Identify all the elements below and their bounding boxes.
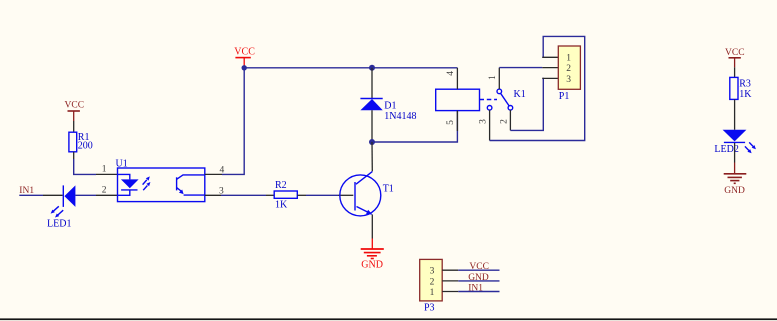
svg-text:3: 3	[566, 75, 571, 85]
svg-text:VCC: VCC	[469, 262, 489, 272]
wire: IN1 to LED1	[19, 194, 43, 196]
svg-text:LED1: LED1	[47, 219, 71, 230]
svg-text:U1: U1	[116, 159, 128, 170]
LED LED2	[723, 130, 756, 153]
svg-text:1: 1	[102, 164, 107, 174]
wire: P3 pin3 (VCC)	[458, 269, 499, 271]
pin: LED2 to GND	[734, 143, 736, 163]
wire: P3 pin1 (IN1)	[458, 291, 499, 293]
pin: D1 top	[371, 68, 373, 99]
svg-text:D1: D1	[384, 100, 396, 111]
wire: R2 to T1 base	[306, 194, 338, 196]
wire: U1 pin3 to R2	[221, 194, 266, 196]
pin: R2 left	[266, 194, 274, 196]
resistor R2	[274, 191, 297, 198]
wire: R3 to LED2	[734, 99, 736, 129]
svg-text:3: 3	[478, 119, 488, 124]
power port VCC (right, dark red)	[725, 48, 745, 68]
wire: K1 pin1 to P1 pin2	[499, 67, 542, 69]
wire: R1 to U1 pin1	[74, 159, 96, 174]
pin 3 of K1	[489, 110, 491, 140]
svg-text:1: 1	[430, 288, 435, 298]
ground GND (right, dark red)	[724, 163, 747, 196]
wire: U1 pin4 up to VCC rail	[222, 68, 244, 175]
svg-text:3: 3	[430, 267, 435, 277]
pin stubs of P1	[542, 56, 558, 58]
svg-text:200: 200	[78, 141, 93, 152]
svg-text:2: 2	[566, 64, 571, 74]
power port VCC (left, dark red)	[65, 101, 85, 121]
pin: VCC to R3	[734, 67, 736, 77]
svg-text:4: 4	[446, 71, 456, 76]
pin 3 of U1	[205, 194, 221, 196]
pin 2 of U1	[96, 194, 118, 196]
wire: LED1 to U1 pin2	[75, 194, 96, 196]
svg-text:1N4148: 1N4148	[384, 111, 416, 122]
pin: D1 bottom	[371, 110, 373, 142]
svg-text:GND: GND	[724, 186, 745, 196]
wire: VCC rail	[244, 67, 457, 69]
sheet border line (bottom)	[0, 318, 777, 320]
wire: junction down to T1 collector	[371, 142, 373, 171]
wire: K1 pin3 loop to P1 pin1	[490, 36, 585, 140]
pin 4 of U1	[205, 173, 222, 175]
wire: junction to relay pin5	[372, 111, 457, 142]
pin: LED1 cathode	[43, 194, 63, 196]
optocoupler U1 body	[118, 168, 205, 202]
svg-text:P3: P3	[424, 302, 435, 313]
wire: P3 pin2 (GND)	[458, 280, 499, 282]
pin 5 of K1	[456, 111, 458, 131]
ground GND (red) under T1	[361, 239, 384, 271]
svg-text:IN1: IN1	[468, 283, 483, 293]
pin 4 of K1	[456, 68, 458, 89]
svg-text:VCC: VCC	[65, 101, 85, 111]
LED D LED1	[51, 185, 76, 217]
svg-text:K1: K1	[514, 89, 526, 100]
junction at D1 top	[369, 65, 375, 71]
svg-text:GND: GND	[361, 259, 383, 270]
svg-text:1K: 1K	[275, 200, 288, 211]
svg-text:2: 2	[102, 185, 107, 195]
connector P1 body	[558, 46, 580, 89]
svg-text:2: 2	[499, 119, 509, 124]
diode D1	[360, 99, 382, 111]
svg-text:VCC: VCC	[234, 46, 255, 57]
junction at D1 bottom	[369, 139, 375, 145]
resistor R3	[730, 77, 738, 99]
svg-text:1: 1	[566, 54, 571, 64]
svg-text:R3: R3	[739, 78, 751, 89]
pin 1 of K1	[498, 68, 500, 90]
svg-text:IN1: IN1	[19, 186, 34, 196]
resistor R1	[69, 132, 77, 152]
pin: VCC to R1	[73, 121, 75, 132]
wire: K1 pin2 to P1 pin3	[510, 78, 543, 130]
relay K1 coil	[436, 89, 480, 110]
pin 1 of U1	[96, 173, 118, 175]
pin: T1 emitter down	[371, 215, 373, 239]
svg-text:1: 1	[488, 75, 498, 80]
pin: R2 right	[297, 194, 306, 196]
svg-text:R2: R2	[275, 180, 287, 191]
dashed actuator line	[480, 99, 498, 101]
svg-text:GND: GND	[468, 273, 489, 283]
switch contact circles	[497, 89, 502, 94]
U1 internal LED	[118, 174, 151, 195]
pin: R1 bottom	[73, 152, 75, 159]
transistor T1	[340, 172, 381, 216]
svg-text:5: 5	[446, 120, 456, 125]
pin: T1 base	[338, 194, 353, 196]
svg-text:2: 2	[430, 277, 435, 287]
power port VCC (middle, red)	[234, 46, 255, 67]
pin 2 of K1	[509, 110, 511, 130]
U1 internal phototransistor	[177, 175, 205, 195]
svg-text:P1: P1	[559, 91, 570, 102]
svg-text:1K: 1K	[739, 89, 752, 100]
switch blade	[501, 93, 510, 106]
connector P3 body	[420, 259, 443, 301]
svg-text:VCC: VCC	[725, 48, 745, 58]
junction at VCC rail left	[242, 65, 247, 70]
pin stubs of P3	[442, 269, 458, 271]
svg-text:T1: T1	[383, 184, 394, 195]
